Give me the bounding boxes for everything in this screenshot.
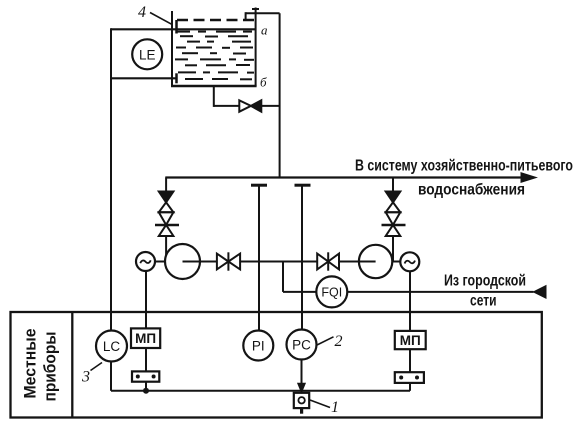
- svg-text:МП: МП: [135, 331, 156, 346]
- svg-text:FQI: FQI: [321, 286, 342, 300]
- svg-text:1: 1: [331, 399, 339, 416]
- svg-text:PC: PC: [292, 338, 311, 353]
- svg-text:а: а: [261, 23, 268, 38]
- svg-text:В систему хозяйственно-питьево: В систему хозяйственно-питьевого: [355, 158, 573, 175]
- svg-text:Из городской: Из городской: [444, 273, 526, 290]
- svg-text:б: б: [260, 75, 267, 90]
- svg-text:PI: PI: [252, 339, 265, 354]
- svg-text:3: 3: [81, 369, 90, 386]
- svg-text:МП: МП: [400, 333, 421, 348]
- svg-text:приборы: приборы: [42, 332, 60, 402]
- svg-text:2: 2: [335, 333, 343, 350]
- svg-text:Местные: Местные: [22, 329, 40, 399]
- svg-text:сети: сети: [470, 293, 497, 310]
- svg-text:LC: LC: [103, 339, 121, 354]
- svg-text:LE: LE: [139, 47, 156, 62]
- svg-text:водоснабжения: водоснабжения: [418, 182, 525, 199]
- svg-text:4: 4: [138, 4, 146, 21]
